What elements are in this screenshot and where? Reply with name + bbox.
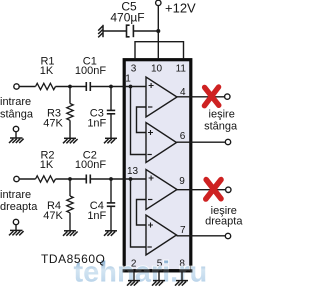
capacitor C3 1nF: [107, 110, 115, 113]
wire A1 out pin4: [177, 96, 225, 98]
ground pin2: [127, 281, 140, 286]
node C junction R2/R4/C2: [68, 177, 72, 181]
ground C4: [104, 231, 117, 236]
X mark right output: [206, 180, 221, 199]
wire A2 out pin6: [177, 141, 226, 143]
svg-text:1K: 1K: [40, 159, 54, 171]
ground input-right: [9, 230, 24, 235]
wire gnd to C5: [103, 30, 126, 32]
wire input to R2: [19, 178, 35, 180]
svg-text:470µF: 470µF: [110, 11, 144, 25]
svg-text:100nF: 100nF: [75, 65, 106, 77]
resistor R3 47K: [67, 104, 73, 121]
pin + of A1: [149, 83, 154, 88]
svg-text:47K: 47K: [43, 210, 63, 222]
capacitor C1 100nF: [86, 82, 90, 91]
wire A3 out pin9: [177, 189, 226, 191]
svg-text:7: 7: [180, 225, 186, 236]
svg-text:3: 3: [131, 63, 137, 74]
svg-text:1K: 1K: [40, 65, 54, 77]
capacitor C4 1nF: [107, 203, 115, 206]
wire R2 to node C: [56, 178, 87, 180]
svg-text:47K: 47K: [43, 118, 63, 130]
wire R4 to ground: [69, 213, 71, 231]
IC U1 TDA8560Q body: [124, 60, 191, 271]
node pin1 junction: [129, 85, 133, 89]
svg-text:9: 9: [179, 176, 185, 187]
ground pin5: [152, 281, 165, 286]
terminal input right: [14, 176, 19, 181]
resistor R4 47K: [67, 196, 73, 213]
terminal input-left ground: [13, 126, 18, 131]
svg-text:intrare: intrare: [0, 96, 31, 108]
wire pin5 to ground: [158, 272, 160, 281]
wire pin8 to ground: [181, 272, 183, 281]
svg-text:11: 11: [176, 63, 187, 74]
svg-text:6: 6: [180, 131, 186, 142]
wire node D down to C4: [110, 179, 112, 203]
wire rail center drop pin10: [157, 42, 159, 59]
wire supply rail: [135, 42, 184, 59]
wire node A down to R3: [69, 87, 71, 104]
svg-text:ieşire: ieşire: [209, 108, 235, 120]
wire input to R1: [19, 86, 35, 88]
svg-text:1: 1: [125, 73, 131, 84]
svg-text:stânga: stânga: [0, 108, 34, 120]
wire A1 minus to A2 plus: [137, 107, 147, 133]
svg-text:+12V: +12V: [165, 1, 196, 16]
op-amp A2 (left ch, pin6): [146, 123, 177, 163]
wire A4 out pin7: [177, 235, 226, 237]
terminal output pin7: [225, 233, 230, 238]
pin + of A3: [149, 176, 154, 181]
op-amp A4 (right ch, pin7): [146, 215, 177, 255]
terminal input-right ground: [13, 219, 18, 224]
terminal input left: [14, 84, 19, 89]
pin - of A1: [148, 106, 152, 108]
node +12V junction: [156, 29, 160, 33]
svg-text:intrare: intrare: [0, 189, 31, 201]
wire C5 to +12V node: [133, 30, 158, 32]
wire C1 to pin 1: [90, 86, 146, 88]
capacitor C5 470uF (polarized): [127, 25, 134, 37]
ground R4: [63, 231, 78, 236]
svg-text:dreapta: dreapta: [0, 201, 38, 213]
resistor R2 1K: [36, 176, 56, 182]
wire +12V down: [157, 6, 159, 42]
terminal output pin4: [225, 94, 230, 99]
terminal output pin6: [225, 139, 230, 144]
node D junction C2/C4: [109, 177, 113, 181]
pin + of A2: [148, 130, 153, 135]
ground (C5 decoupling, vertical chassis): [98, 25, 103, 38]
svg-text:1nF: 1nF: [87, 210, 106, 222]
wire R3 to ground: [69, 120, 71, 138]
wire pin1 down to A2 minus: [131, 87, 147, 155]
node pin13 junction: [129, 177, 133, 181]
svg-text:stânga: stânga: [204, 120, 238, 132]
svg-text:100nF: 100nF: [75, 159, 106, 171]
wire terminal to ground: [15, 132, 17, 138]
terminal output pin9: [226, 187, 231, 192]
pin - of A4: [147, 246, 151, 248]
wire C2 to pin 13: [90, 178, 146, 180]
wire node B down to C3: [110, 87, 112, 111]
X mark left output: [204, 87, 218, 106]
wire pin2 to ground: [133, 272, 135, 281]
pin - of A3: [148, 199, 152, 201]
ground R3: [63, 138, 78, 143]
pin + of A4: [148, 223, 153, 228]
resistor R1 1K: [36, 83, 56, 89]
capacitor C2 100nF: [86, 175, 90, 184]
wire C3 to ground: [110, 114, 112, 139]
ground pin8: [175, 281, 188, 286]
node B junction C1/C3: [109, 85, 113, 89]
op-amp A1 (left ch, pin4): [146, 77, 177, 117]
wire R1 to node A: [56, 86, 87, 88]
wire terminal to ground: [15, 225, 17, 231]
svg-text:1nF: 1nF: [87, 117, 106, 129]
pin - of A2: [147, 154, 151, 156]
terminal +12V: [156, 0, 161, 5]
svg-text:13: 13: [127, 166, 139, 177]
node A junction R1/R3/C1: [68, 85, 72, 89]
svg-text:dreapta: dreapta: [205, 216, 243, 228]
wire C4 to ground: [110, 206, 112, 231]
wire pin13 down to A4 minus: [131, 179, 147, 247]
IC bottom border redraw: [123, 269, 193, 272]
wire A3 minus to A4 plus: [137, 200, 147, 226]
wire node C down to R4: [69, 179, 71, 196]
svg-text:10: 10: [151, 63, 163, 74]
op-amp A3 (right ch, pin9): [146, 170, 177, 210]
ground C3: [104, 138, 117, 143]
svg-text:TDA8560Q: TDA8560Q: [41, 252, 105, 266]
ground input-left: [9, 138, 24, 143]
svg-text:4: 4: [180, 87, 186, 98]
